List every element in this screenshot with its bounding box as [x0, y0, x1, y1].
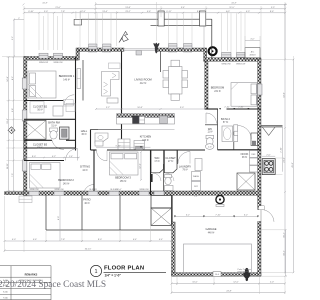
- svg-text:36 ft²: 36 ft²: [81, 133, 86, 136]
- window front-left 1: [39, 53, 48, 64]
- svg-text:16'-4": 16'-4": [283, 232, 285, 238]
- front door opening: [124, 49, 156, 55]
- patio step lines right: [261, 125, 283, 135]
- wall garage bottom: [172, 273, 262, 277]
- svg-text:44 ft²: 44 ft²: [82, 169, 87, 172]
- dim left connectors: [7, 57, 24, 191]
- svg-text:5'-4": 5'-4": [194, 196, 198, 198]
- bed bedroom1: [28, 71, 56, 98]
- dim grill right: [262, 127, 283, 175]
- svg-text:412 ft²: 412 ft²: [140, 82, 147, 85]
- kitchen island counter: [98, 114, 175, 130]
- svg-text:E-100: E-100: [3, 291, 8, 293]
- wall living front right: [156, 48, 205, 51]
- dim extension verticals garage bottom: [172, 277, 286, 294]
- svg-text:WINDOW: WINDOW: [53, 62, 62, 64]
- label bath left: [48, 121, 59, 128]
- wall master bath x217.5: [217, 109, 219, 150]
- shelf boxes hall closet: [77, 69, 81, 89]
- dim right vertical outer: [283, 4, 286, 274]
- svg-text:13'-4": 13'-4": [7, 118, 9, 124]
- front door arrow: [119, 32, 128, 43]
- svg-text:27 ft²: 27 ft²: [168, 160, 173, 163]
- window living right 1: [168, 44, 177, 54]
- svg-text:existing pal: existing pal: [238, 270, 249, 273]
- svg-text:9'-4": 9'-4": [181, 7, 185, 9]
- svg-text:38 ft²: 38 ft²: [242, 156, 247, 159]
- svg-text:8'-6": 8'-6": [197, 11, 201, 13]
- svg-text:1/4" = 1'-0": 1/4" = 1'-0": [105, 274, 122, 278]
- svg-text:5'-2": 5'-2": [106, 107, 110, 109]
- svg-text:2'-10": 2'-10": [281, 147, 283, 153]
- door patio arc: [84, 185, 95, 195]
- svg-text:PATIO: PATIO: [83, 198, 90, 202]
- pantry X right: [237, 173, 255, 190]
- dim top row1: [23, 3, 288, 6]
- shower master bath: [251, 133, 258, 146]
- door rear entry garage arc: [261, 209, 274, 221]
- dim extension verticals bottom-left: [5, 196, 172, 252]
- toilet hall bath: [165, 175, 174, 191]
- svg-text:8'-0": 8'-0": [32, 156, 36, 158]
- svg-text:79 ft²: 79 ft²: [182, 169, 187, 172]
- dim top row4 short: [14, 18, 24, 20]
- wall bedroom3 left x94: [93, 150, 95, 191]
- dim left vertical outer: [7, 56, 10, 192]
- toilet bath left: [50, 128, 58, 139]
- svg-text:1'-4": 1'-4": [69, 156, 73, 158]
- svg-text:231 ft²: 231 ft²: [214, 90, 221, 93]
- svg-text:2'-0": 2'-0": [270, 282, 274, 284]
- svg-text:40 ft²: 40 ft²: [84, 202, 89, 205]
- porch slab + columns: [74, 11, 212, 58]
- wall bedroom2 top y151: [24, 148, 76, 161]
- svg-text:HALL: HALL: [81, 129, 88, 133]
- svg-text:WINDOW: WINDOW: [139, 189, 148, 191]
- svg-text:WINDOW: WINDOW: [102, 52, 111, 54]
- svg-text:SLIDER: SLIDER: [89, 189, 97, 191]
- svg-text:51 ft²: 51 ft²: [51, 124, 56, 127]
- wall closet row y164: [151, 150, 177, 181]
- svg-text:6'-2": 6'-2": [244, 215, 248, 217]
- svg-text:5'-5": 5'-5": [271, 7, 275, 9]
- svg-text:56 ft²: 56 ft²: [37, 109, 42, 112]
- label sitting hall: [80, 165, 90, 172]
- svg-text:16'-8": 16'-8": [137, 107, 143, 109]
- dining table: [163, 60, 188, 100]
- window front-left 2: [53, 53, 62, 64]
- svg-text:12'-0": 12'-0": [233, 282, 239, 284]
- svg-text:8'-6": 8'-6": [270, 11, 274, 13]
- svg-text:41'-9": 41'-9": [42, 3, 48, 5]
- door bath arc: [52, 140, 64, 149]
- svg-text:1: 1: [94, 269, 97, 275]
- smoke ring symbol: [209, 47, 217, 55]
- svg-text:4'-6": 4'-6": [147, 11, 151, 13]
- washer dryer laundry: [192, 159, 203, 191]
- svg-text:12'-0": 12'-0": [139, 163, 141, 169]
- svg-text:REF: REF: [251, 154, 256, 156]
- dim bedroom2 interior: [23, 156, 80, 159]
- svg-text:48X48: 48X48: [249, 54, 256, 56]
- label patio: [83, 198, 90, 205]
- dim master bottom ticks: [219, 106, 249, 110]
- svg-text:13'-4": 13'-4": [102, 11, 108, 13]
- svg-text:34'-10": 34'-10": [85, 249, 92, 251]
- wall left wing / center divider x75.5: [76, 57, 84, 151]
- door master bath arc: [206, 113, 217, 124]
- window living right 2: [183, 44, 192, 54]
- svg-text:7'-8": 7'-8": [61, 11, 65, 13]
- svg-text:LAUNDRY: LAUNDRY: [179, 165, 192, 169]
- label closetB2: [33, 105, 48, 112]
- svg-text:7'-10": 7'-10": [215, 215, 221, 217]
- patio posts + edge: [46, 195, 172, 230]
- svg-text:LIVING ROOM: LIVING ROOM: [134, 78, 151, 82]
- svg-text:448 ft²: 448 ft²: [208, 232, 215, 235]
- window left wall set: [22, 78, 27, 171]
- label garage corner: [238, 268, 252, 273]
- label living room: [134, 78, 151, 86]
- door bedroom2 arcs: [66, 149, 78, 161]
- wall living front left: [78, 48, 124, 51]
- label bedroom2: [58, 178, 74, 186]
- storage room under rear wall: [151, 195, 172, 208]
- svg-text:5'-0": 5'-0": [44, 11, 48, 13]
- svg-text:4'-6": 4'-6": [33, 239, 37, 241]
- svg-text:NOOK: NOOK: [241, 152, 249, 156]
- svg-text:166 ft²: 166 ft²: [142, 139, 149, 142]
- dim extension verticals top: [24, 2, 294, 60]
- svg-text:BATH 2: BATH 2: [221, 117, 230, 121]
- wall garage right: [258, 195, 261, 276]
- svg-text:21'-0": 21'-0": [55, 7, 61, 9]
- svg-text:4'-2": 4'-2": [52, 156, 56, 158]
- svg-text:2'-6": 2'-6": [208, 147, 212, 149]
- door label box rear wall: [19, 196, 32, 203]
- wall closetB2 bottom y119.3: [24, 118, 76, 120]
- dim texts misc: [116, 147, 212, 198]
- svg-text:WINDOW: WINDOW: [39, 62, 48, 64]
- wall front right wing: [205, 58, 261, 62]
- dim garage right vertical: [261, 229, 287, 277]
- bed bedroom3 (bottom-center): [110, 152, 139, 175]
- window right wing 2: [236, 52, 245, 65]
- svg-text:12'-9": 12'-9": [80, 11, 86, 13]
- wall step down right of living: [204, 48, 207, 61]
- svg-text:6'-2": 6'-2": [186, 215, 190, 217]
- svg-text:DRY: DRY: [194, 186, 199, 188]
- svg-text:11'-5": 11'-5": [229, 7, 234, 9]
- water heater circle garage: [216, 195, 224, 206]
- svg-text:146 ft²: 146 ft²: [63, 79, 70, 82]
- dim left vertical upper: [2, 19, 24, 58]
- svg-text:23'-2": 23'-2": [125, 11, 131, 13]
- tub master bath: [222, 126, 233, 142]
- door bath2 arc: [238, 126, 252, 140]
- cabinet boxes kitchen: [118, 139, 130, 150]
- dim bottom-left row1: [4, 239, 173, 242]
- dim garage bottom row2: [171, 291, 287, 294]
- nook counter right: [250, 151, 258, 173]
- svg-text:BEDROOM: BEDROOM: [211, 86, 224, 90]
- svg-text:A/C: A/C: [251, 50, 255, 53]
- svg-text:CLOSET B2: CLOSET B2: [33, 105, 48, 109]
- linen boxes master bath: [234, 125, 238, 142]
- svg-text:156 ft²: 156 ft²: [120, 180, 127, 183]
- wall hall top / kitchen top y150: [91, 149, 262, 151]
- svg-text:CLOSET: CLOSET: [165, 156, 176, 160]
- svg-text:WINDOW: WINDOW: [168, 52, 177, 54]
- svg-text:14'-8": 14'-8": [7, 76, 9, 82]
- dim hall horizontal: [96, 145, 151, 148]
- label kitchen: [140, 135, 152, 143]
- storage closet X-box: [151, 208, 172, 226]
- label laundry: [179, 165, 192, 172]
- svg-text:2'-10": 2'-10": [224, 106, 230, 108]
- svg-text:8'-2": 8'-2": [12, 76, 14, 80]
- dim garage bottom row1: [171, 282, 287, 285]
- palm shrub garage corner: [242, 268, 251, 281]
- svg-text:WASH: WASH: [193, 175, 200, 178]
- watermark Space Coast MLS: [0, 280, 106, 290]
- svg-text:FLOOR PLAN: FLOOR PLAN: [104, 266, 144, 272]
- svg-text:4'-0": 4'-0": [12, 239, 16, 241]
- window living left 1: [88, 44, 97, 54]
- svg-text:P-100: P-100: [3, 297, 8, 299]
- svg-text:10'-0": 10'-0": [192, 282, 198, 284]
- window/slider rear wall set: [29, 189, 164, 195]
- pantry shelves kitchen: [134, 141, 145, 150]
- svg-text:BEDROOM 2: BEDROOM 2: [58, 178, 74, 182]
- svg-text:BEDROOM 1: BEDROOM 1: [59, 74, 75, 78]
- svg-text:6'-4": 6'-4": [133, 239, 137, 241]
- wall left exterior: [24, 57, 27, 196]
- svg-text:10'-2": 10'-2": [284, 250, 286, 256]
- svg-text:GARAGE: GARAGE: [205, 227, 216, 231]
- wall foyer/kitchen x121.5: [121, 51, 123, 150]
- svg-text:WINDOW: WINDOW: [221, 64, 230, 66]
- svg-text:16'-0": 16'-0": [116, 189, 122, 191]
- window right wall: [258, 84, 262, 95]
- bed master (right): [231, 83, 257, 107]
- svg-text:8'-0": 8'-0": [58, 216, 60, 220]
- title circle 1: [90, 265, 101, 276]
- svg-text:WINDOW: WINDOW: [88, 52, 97, 54]
- svg-text:BEDROOM 3: BEDROOM 3: [115, 176, 131, 180]
- label bath2: [221, 117, 230, 124]
- bed bedroom2 (bottom-left): [30, 163, 61, 189]
- svg-text:6'-10": 6'-10": [28, 11, 34, 13]
- label hall: [81, 129, 88, 136]
- wall right exterior: [258, 59, 261, 192]
- closet X-box left (bath): [24, 120, 46, 139]
- powder room vanity: [95, 133, 108, 146]
- svg-text:4'-4": 4'-4": [159, 239, 163, 241]
- label box garage right wall: [259, 206, 265, 210]
- svg-text:8'-0": 8'-0": [98, 239, 102, 241]
- wall bath bottom y140.3: [24, 139, 76, 141]
- svg-text:4'-9": 4'-9": [226, 11, 230, 13]
- svg-text:WC: WC: [208, 127, 212, 131]
- svg-text:3'-10": 3'-10": [115, 145, 121, 147]
- wall master bedroom bottom y109: [205, 108, 261, 110]
- svg-text:16'-11": 16'-11": [7, 163, 9, 170]
- dim left vertical inner: [12, 56, 14, 192]
- svg-text:CLOSET B3: CLOSET B3: [33, 143, 48, 147]
- svg-text:KITCHEN: KITCHEN: [140, 135, 152, 139]
- svg-text:45'-0": 45'-0": [292, 162, 294, 168]
- svg-text:WINDOW: WINDOW: [54, 189, 63, 191]
- wall step at x76: [76, 48, 79, 60]
- svg-text:13'-8": 13'-8": [283, 92, 285, 98]
- plant at entry: [153, 43, 160, 54]
- label bedroom3: [115, 176, 131, 183]
- svg-text:2'-6": 2'-6": [266, 154, 270, 156]
- wall master bedroom left (thick): [205, 61, 208, 109]
- label closet: [165, 156, 176, 163]
- svg-text:11 ft²: 11 ft²: [207, 131, 212, 134]
- outdoor grill (stove square): [262, 159, 275, 175]
- window living left 2: [102, 44, 111, 54]
- svg-text:WINDOW: WINDOW: [183, 52, 192, 54]
- svg-text:SITTING: SITTING: [80, 165, 90, 169]
- garage apron rectangle: [184, 244, 252, 274]
- garage door label box: [213, 272, 221, 277]
- shower bath left: [60, 127, 70, 139]
- svg-text:4'-9": 4'-9": [246, 11, 250, 13]
- wall bedroom1 bottom y100.5: [24, 100, 64, 102]
- wall powder room x90.5: [91, 130, 122, 151]
- label garage: [205, 227, 216, 235]
- svg-text:REMARKS: REMARKS: [25, 273, 38, 276]
- svg-text:3'-8": 3'-8": [12, 108, 14, 112]
- svg-text:WINDOW: WINDOW: [236, 64, 245, 66]
- label closetB3: [33, 143, 48, 150]
- wall garage left: [172, 195, 176, 276]
- AC pad: [245, 48, 260, 60]
- label wic: [154, 156, 159, 163]
- title text: [104, 266, 167, 278]
- svg-text:WIC: WIC: [154, 156, 159, 160]
- svg-text:6'-11": 6'-11": [166, 11, 171, 13]
- window right wing 1: [221, 52, 231, 65]
- wall bedroom3 right x150.5: [150, 150, 152, 195]
- door bedroom1 arc: [64, 95, 74, 105]
- svg-text:2'-10": 2'-10": [238, 106, 244, 108]
- wall laundry x177.5: [164, 150, 178, 191]
- dim right vertical outer2: [262, 59, 295, 274]
- table texts: [3, 273, 43, 299]
- svg-text:7'-8": 7'-8": [61, 239, 65, 241]
- wall rear (bottom of house): [24, 191, 262, 195]
- dim patio vertical: [58, 196, 60, 241]
- dim garage interior: [174, 215, 259, 218]
- svg-text:58 ft²: 58 ft²: [37, 147, 42, 150]
- svg-text:4'-0": 4'-0": [250, 39, 254, 41]
- svg-text:57 ft²: 57 ft²: [223, 121, 228, 124]
- meter diamond left wall: [8, 127, 15, 134]
- svg-text:7'-5": 7'-5": [12, 173, 14, 177]
- dim AC: [245, 36, 260, 47]
- console table living: [107, 63, 120, 103]
- wall stub bath x150.5: [150, 174, 152, 182]
- svg-text:24'-8": 24'-8": [226, 291, 232, 293]
- dim top row3: [23, 11, 286, 14]
- svg-text:WINDOW: WINDOW: [29, 189, 38, 191]
- svg-text:21'-0": 21'-0": [283, 157, 285, 163]
- dim living mid horizontal: [95, 107, 206, 110]
- label bedroom1: [59, 74, 75, 82]
- svg-text:17 ft²: 17 ft²: [154, 160, 159, 163]
- label master bedroom: [211, 86, 224, 94]
- dim bottom-left row2: [4, 249, 173, 252]
- wall front-left wing: [24, 57, 78, 61]
- svg-text:9'-0": 9'-0": [180, 107, 184, 109]
- closetB2 shelf boxes: [30, 100, 75, 117]
- svg-text:13'-8": 13'-8": [125, 7, 131, 9]
- wall foyer right x160.5: [160, 51, 162, 72]
- wall master bath x233.8: [205, 125, 234, 150]
- label master WC: [207, 127, 212, 134]
- door laundry arc: [178, 152, 190, 164]
- label nook: [241, 152, 249, 159]
- svg-text:9'-2": 9'-2": [12, 36, 14, 40]
- svg-text:140 ft²: 140 ft²: [63, 183, 70, 186]
- wall rear stub left: [5, 192, 24, 195]
- dim top row2: [23, 7, 286, 10]
- svg-text:6'-0": 6'-0": [12, 128, 14, 132]
- sofa living: [102, 72, 120, 97]
- door bedroom3 arc: [97, 150, 108, 161]
- svg-text:41'-9": 41'-9": [231, 3, 237, 5]
- dim bedroom3 vertical: [139, 151, 142, 181]
- svg-text:BATH RM: BATH RM: [48, 121, 59, 125]
- svg-text:2/20/2024 Space Coast MLS: 2/20/2024 Space Coast MLS: [0, 280, 106, 290]
- toilet master WC: [206, 135, 214, 149]
